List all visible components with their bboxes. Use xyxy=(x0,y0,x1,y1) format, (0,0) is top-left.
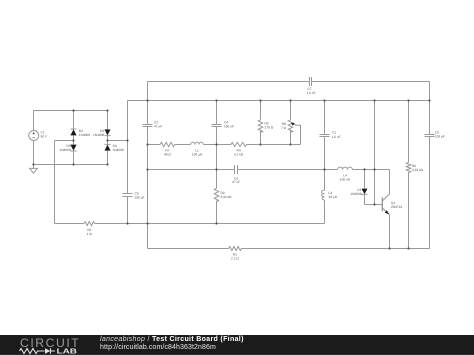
svg-text:33 µH: 33 µH xyxy=(329,195,338,199)
svg-text:2N3719: 2N3719 xyxy=(391,205,402,209)
svg-text:47 nF: 47 nF xyxy=(232,180,240,184)
svg-text:1N4008: 1N4008 xyxy=(93,133,104,137)
svg-text:100 µH: 100 µH xyxy=(192,153,203,157)
svg-text:1.6 nF: 1.6 nF xyxy=(307,91,316,95)
svg-text:4.19 kΩ: 4.19 kΩ xyxy=(412,168,424,172)
svg-text:7 Ω: 7 Ω xyxy=(281,126,287,130)
svg-text:5.1 kΩ: 5.1 kΩ xyxy=(234,153,244,157)
svg-text:90 V: 90 V xyxy=(41,135,48,139)
svg-text:270 Ω: 270 Ω xyxy=(265,125,274,129)
svg-text:1.6 nF: 1.6 nF xyxy=(332,135,341,139)
svg-text:9.34 kΩ: 9.34 kΩ xyxy=(221,195,233,199)
svg-text:48 Ω: 48 Ω xyxy=(164,153,171,157)
svg-text:1N4008: 1N4008 xyxy=(59,148,70,152)
svg-text:LAB: LAB xyxy=(57,348,78,355)
svg-text:100 µF: 100 µF xyxy=(135,195,145,199)
svg-text:2.2 Ω: 2.2 Ω xyxy=(231,256,239,260)
svg-text:100 pF: 100 pF xyxy=(435,135,445,139)
svg-text:1N4008: 1N4008 xyxy=(113,148,124,152)
svg-text:100 nH: 100 nH xyxy=(340,178,351,182)
svg-text:100 nF: 100 nF xyxy=(224,124,234,128)
svg-text:47 nF: 47 nF xyxy=(154,124,162,128)
svg-text:1N4008: 1N4008 xyxy=(79,133,90,137)
svg-text:1N4008: 1N4008 xyxy=(350,192,361,196)
svg-text:1 Ω: 1 Ω xyxy=(87,232,93,236)
